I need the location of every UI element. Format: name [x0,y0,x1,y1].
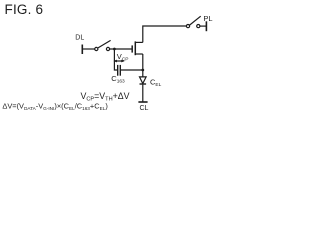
capacitor C163 [118,65,121,76]
node A junction [113,48,116,51]
svg-text:CEL: CEL [150,78,162,89]
wire source down to EL element [142,54,144,77]
wire EL element to CL terminal [142,85,144,102]
transistor Q1 (driving TFT) [132,41,143,55]
svg-text:CL: CL [140,105,149,112]
svg-text:PL: PL [203,14,212,23]
EL element diode CEL [140,77,147,84]
wire switch S2 to PL terminal [200,25,207,27]
annotation VCP measurement arrow [113,60,124,63]
node B junction [141,69,144,72]
wire drain up to power rail [143,26,187,42]
wire capacitor to node B [121,69,143,71]
switch S1 (data line switch) [95,40,111,50]
wire DL terminal to switch [82,48,94,50]
wire switch S1 to transistor gate [110,48,133,50]
svg-text:DL: DL [75,34,84,41]
switch S2 (power line switch) [186,16,200,28]
terminal DL [81,45,83,55]
terminal CL [138,101,147,103]
wire node A down to capacitor [114,49,117,70]
svg-text:VCP: VCP [117,52,129,63]
terminal PL [205,21,207,31]
svg-text:ΔV=(VDATA-VG-INI)×(CEL/C163+CE: ΔV=(VDATA-VG-INI)×(CEL/C163+CEL) [2,102,107,112]
svg-text:FIG. 6: FIG. 6 [5,2,44,17]
